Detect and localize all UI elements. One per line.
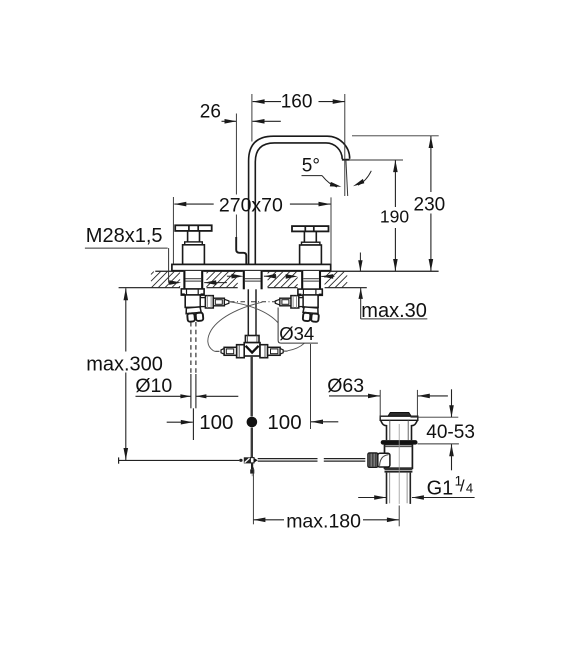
- label bracket Ø34: [278, 308, 318, 344]
- svg-text:230: 230: [414, 195, 446, 216]
- svg-text:4: 4: [466, 480, 473, 495]
- dimension 40-53: [411, 389, 475, 470]
- svg-text:5°: 5°: [302, 156, 320, 177]
- tee left centerline: [216, 350, 221, 352]
- left valve mounting nut: [181, 289, 204, 295]
- drain outlet tube G1 1/4: [387, 473, 411, 504]
- dimension 100 left: [167, 411, 234, 434]
- horizontal lever rod left: [119, 457, 240, 463]
- dimension max.300: [86, 288, 163, 460]
- svg-text:max.300: max.300: [86, 354, 163, 376]
- svg-text:M28x1,5: M28x1,5: [86, 225, 163, 247]
- water stream line: [346, 160, 348, 196]
- svg-text:270x70: 270x70: [219, 194, 283, 216]
- middle valve shank (M28 thread): [243, 271, 263, 289]
- svg-text:/: /: [460, 477, 465, 496]
- drain upper body: [381, 420, 418, 440]
- drain centerline: [398, 424, 400, 504]
- hole diameter arrows middle: [227, 274, 277, 279]
- pivot ball dot: [247, 417, 258, 428]
- right valve hose fitting: [275, 298, 291, 306]
- right valve shank (M28 thread): [301, 271, 321, 289]
- dimension 26: [200, 101, 281, 237]
- left handle: [175, 225, 212, 264]
- deck plate 270x70: [172, 264, 331, 270]
- angle 5 degrees: [302, 156, 372, 188]
- svg-text:G1: G1: [427, 477, 454, 499]
- spout: [249, 136, 350, 264]
- label G1 1/4: [358, 473, 474, 500]
- svg-text:160: 160: [281, 92, 313, 113]
- right valve hose centerline: [274, 301, 276, 303]
- right valve body: [298, 295, 318, 308]
- right valve mounting nut: [298, 289, 322, 295]
- horizontal lever rod right: [258, 459, 366, 462]
- leader curve left valve to label: [230, 302, 278, 323]
- dimension max.30: [358, 253, 427, 322]
- drain lower body: [385, 445, 413, 469]
- center supply pipe: [248, 289, 256, 335]
- svg-text:190: 190: [380, 207, 409, 227]
- countertop surface: [155, 270, 438, 272]
- countertop underside: [119, 287, 367, 289]
- left valve shank (M28 thread): [183, 271, 203, 289]
- pop-up rod lower: [251, 428, 253, 458]
- right handle: [292, 226, 329, 264]
- svg-text:Ø34: Ø34: [279, 323, 314, 344]
- tee left flange: [237, 345, 245, 358]
- svg-text:Ø10: Ø10: [135, 375, 172, 397]
- tee right flange: [260, 345, 268, 358]
- dimension 230: [352, 136, 445, 271]
- left valve hose port hex: [205, 296, 213, 308]
- svg-text:max.30: max.30: [361, 300, 427, 322]
- tee right centerline: [284, 350, 288, 352]
- dimension max.180: [253, 468, 399, 533]
- spout base foot: [236, 237, 246, 264]
- drain pop-up plug cap: [388, 413, 411, 417]
- svg-text:100: 100: [199, 411, 233, 434]
- pop-up rod Ø10 dashed upper: [191, 322, 196, 440]
- left valve lower nut: [186, 307, 204, 322]
- tee body: [244, 343, 260, 356]
- svg-text:100: 100: [267, 411, 301, 434]
- pop-up rod upper (from tee): [250, 356, 252, 416]
- dimension Ø63: [327, 375, 448, 418]
- dimension 100 right: [267, 344, 338, 434]
- svg-text:40-53: 40-53: [426, 422, 475, 443]
- dimension 160: [252, 92, 345, 196]
- leader curve tee to label: [288, 343, 305, 351]
- svg-text:26: 26: [200, 101, 221, 122]
- left valve body: [185, 295, 205, 308]
- right valve hose port hex: [291, 296, 299, 308]
- tee connector nut: [245, 336, 259, 343]
- tee right hose fitting: [268, 347, 284, 355]
- tee left hose fitting: [221, 347, 237, 355]
- countertop hatching: [151, 272, 347, 288]
- left valve hose fitting: [213, 298, 229, 306]
- leader curve right valve to tee: [208, 302, 262, 351]
- hole diameter arrows right: [286, 274, 335, 279]
- svg-text:max.180: max.180: [286, 511, 361, 533]
- drain coupling rings: [385, 468, 413, 472]
- dimension 270x70: [173, 194, 331, 264]
- right valve lower nut: [302, 307, 319, 322]
- label M28x1,5: [85, 225, 181, 285]
- drain flange: [380, 416, 418, 420]
- svg-text:Ø63: Ø63: [327, 375, 364, 397]
- drain lever boss: [378, 453, 390, 467]
- drain knurled knob: [368, 453, 378, 467]
- rod clamp junction: [239, 457, 258, 476]
- hole diameter arrows left: [204, 280, 227, 285]
- drain gasket seal: [381, 440, 418, 445]
- dimension Ø10: [135, 375, 238, 399]
- left valve hose centerline: [230, 301, 276, 303]
- dimension 190: [350, 160, 410, 271]
